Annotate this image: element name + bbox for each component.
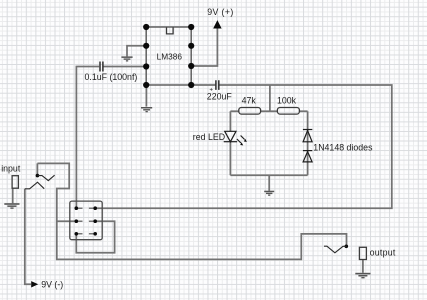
ground pin4 [141, 107, 152, 112]
wire row2-right to row3-left crossover [76, 221, 114, 253]
svg-text:0.1uF (100nf): 0.1uF (100nf) [85, 72, 138, 82]
svg-text:red LED: red LED [193, 132, 225, 142]
wire 9V minus from ring switch [25, 189, 31, 284]
resistor R1 47k [239, 108, 261, 115]
wire LED loop left [230, 110, 307, 112]
capacitor C1 0.1uF [100, 62, 103, 72]
node output tip junction [345, 245, 349, 249]
svg-text:9V (+): 9V (+) [207, 7, 233, 17]
svg-text:100k: 100k [277, 96, 297, 106]
svg-text:9V (-): 9V (-) [41, 280, 63, 290]
diode D2 1N4148 [303, 130, 312, 142]
input jack J1 [12, 176, 18, 189]
connector S1 pin stubs [76, 208, 95, 234]
9V (-) arrow [31, 281, 38, 287]
node input tip junction [36, 174, 40, 178]
wire output jack pin [362, 260, 364, 273]
connector S1 pins [75, 206, 97, 235]
switch output tip contact [324, 246, 347, 253]
wire diode branch [307, 111, 309, 175]
capacitor C2 220uF [216, 80, 219, 90]
wire ground stub of loop [268, 175, 270, 191]
diode D3 1N4148 [303, 151, 312, 162]
op-amp U1 LM386 body [146, 27, 191, 85]
LED D1 red [224, 131, 245, 143]
ground output jack [355, 273, 370, 279]
wire pin4 to ground [145, 85, 147, 107]
wire pin3 to 0.1uF and down to block row1-left [76, 67, 146, 209]
resistor R2 100k [277, 108, 299, 115]
wire pin6 to 9V+ [191, 28, 217, 67]
9V (+) arrow [214, 21, 221, 28]
wire LED branch [229, 111, 231, 175]
svg-text:1N4148 diodes: 1N4148 diodes [313, 143, 373, 153]
op-amp U1 notch [167, 27, 174, 34]
ground LED loop [264, 191, 274, 196]
svg-text:output: output [370, 248, 396, 258]
wire row2-left [57, 220, 77, 222]
svg-text:input: input [1, 163, 21, 173]
wire input switch to block row2-left and output jack [37, 163, 346, 259]
ground input jack [4, 203, 19, 209]
svg-text:LM386: LM386 [157, 52, 183, 62]
wire input jack pin [12, 188, 14, 203]
wire riser to resistor junction [269, 85, 271, 111]
ground pin2 [121, 56, 132, 61]
svg-text:220uF: 220uF [207, 91, 233, 101]
wire main bus from pin5 through 220uF right around to block row1 [95, 85, 392, 208]
svg-text:47k: 47k [242, 96, 257, 106]
wire pin2 to ground [127, 46, 146, 57]
connector switch S1 body [70, 201, 102, 240]
output jack J2 [359, 247, 366, 259]
wire loop bottom [230, 174, 307, 176]
op-amp U1 pins [143, 24, 194, 88]
switch input ring contact [25, 182, 44, 189]
switch input tip contact [37, 175, 54, 180]
